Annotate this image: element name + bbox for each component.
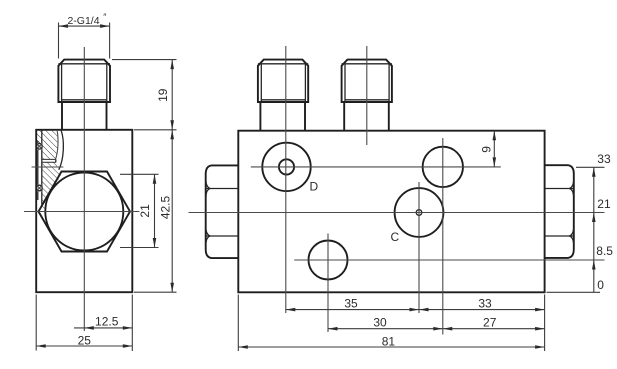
top fitting 2 head bbox=[342, 60, 392, 102]
hole C bbox=[395, 188, 444, 237]
level 8.5 horizontal centerline bbox=[294, 259, 604, 261]
svg-text:C: C bbox=[391, 230, 400, 244]
counterbore profile curve bbox=[59, 130, 64, 170]
svg-text:21: 21 bbox=[138, 204, 152, 218]
dimension 9 bbox=[493, 131, 495, 167]
left end hex fitting bbox=[206, 165, 239, 258]
top fitting 2 neck bbox=[343, 102, 345, 131]
hole D outer bbox=[262, 143, 310, 191]
svg-text:33: 33 bbox=[478, 296, 492, 310]
svg-text:12.5: 12.5 bbox=[95, 314, 119, 328]
svg-text:27: 27 bbox=[483, 315, 497, 329]
svg-text:19: 19 bbox=[156, 88, 170, 102]
right ordinate 0 line bbox=[547, 291, 601, 293]
hole top-right bbox=[423, 147, 463, 187]
o-ring groove 2 bbox=[37, 185, 41, 191]
hole bottom-left bbox=[309, 241, 348, 280]
centerline fitting2 vertical bbox=[366, 46, 368, 145]
bottom dim row1: 35 / 33 bbox=[286, 309, 545, 311]
svg-text:25: 25 bbox=[78, 333, 92, 347]
block body (side view) bbox=[36, 130, 132, 292]
top fitting 1 neck bbox=[259, 102, 261, 131]
hex plug chamfer circle bbox=[45, 173, 123, 251]
svg-text:35: 35 bbox=[344, 296, 358, 310]
o-ring groove 1 bbox=[37, 143, 41, 149]
horizontal centerline (side view) bbox=[24, 211, 140, 213]
port centerline bbox=[32, 166, 64, 168]
centerline top-right hole vertical bbox=[442, 138, 444, 335]
svg-text:21: 21 bbox=[597, 197, 611, 211]
dimension 2-G1/4 bbox=[58, 23, 60, 59]
svg-text:30: 30 bbox=[373, 315, 387, 329]
dimension 19 bbox=[112, 59, 177, 61]
hex plug hexagon bbox=[39, 172, 131, 252]
svg-text:0: 0 bbox=[597, 278, 604, 292]
dimension 42.5 bbox=[134, 291, 177, 293]
block body (front view) bbox=[238, 131, 544, 293]
right ordinate 33 line bbox=[576, 166, 605, 168]
dimension 21 (side view) bbox=[120, 173, 159, 175]
svg-text:9: 9 bbox=[480, 146, 494, 153]
right ordinate dim chain bbox=[593, 167, 595, 292]
svg-text:8.5: 8.5 bbox=[596, 244, 613, 258]
svg-text:42.5: 42.5 bbox=[158, 195, 172, 219]
level 21 main horizontal centerline bbox=[189, 212, 605, 214]
dimension 25 bbox=[35, 295, 37, 351]
top fitting neck bbox=[61, 102, 63, 130]
hole D inner bbox=[279, 159, 294, 174]
dimension 12.5 bbox=[131, 295, 133, 352]
section break curve thin bbox=[56, 130, 59, 160]
hatch upper section region bbox=[36, 130, 62, 211]
centerline hole C vertical bbox=[418, 182, 420, 313]
svg-text:33: 33 bbox=[597, 152, 611, 166]
level 33 horizontal centerline bbox=[251, 166, 501, 168]
bottom dim row2: 30 / 27 bbox=[328, 328, 545, 330]
top fitting 1 head bbox=[258, 60, 308, 102]
svg-text:2-G1/4: 2-G1/4 bbox=[67, 15, 99, 27]
svg-text:81: 81 bbox=[382, 335, 396, 349]
top fitting head (side view) bbox=[58, 60, 110, 102]
counterbore step lines bbox=[42, 158, 56, 160]
centerline fitting1 / hole D vertical bbox=[285, 46, 287, 313]
ext line block right edge bbox=[544, 295, 546, 352]
vertical centerline (side view) bbox=[83, 47, 85, 331]
svg-text:D: D bbox=[310, 180, 319, 194]
bottom dim row3: 81 bbox=[238, 346, 544, 348]
right end hex fitting bbox=[545, 165, 574, 258]
port bore wall lines bbox=[37, 141, 39, 200]
centerline bottom-left hole vertical bbox=[327, 234, 329, 333]
ext line block left edge bbox=[237, 295, 239, 352]
